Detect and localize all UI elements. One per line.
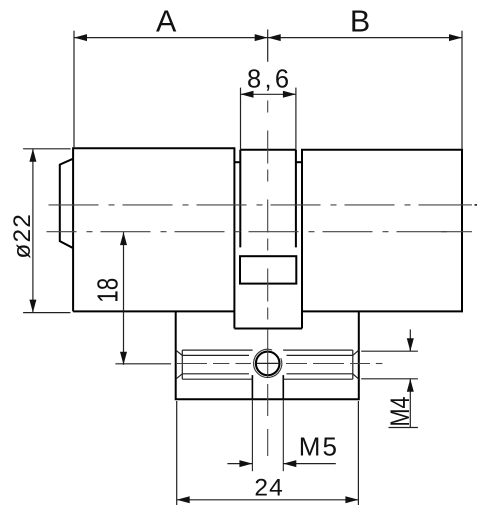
svg-text:A: A	[156, 4, 177, 38]
svg-text:24: 24	[254, 475, 284, 502]
svg-text:ø22: ø22	[9, 214, 36, 259]
svg-text:18: 18	[93, 278, 125, 303]
svg-text:8,6: 8,6	[247, 66, 289, 94]
svg-text:M4: M4	[385, 397, 415, 427]
svg-text:B: B	[350, 4, 370, 38]
svg-text:M5: M5	[299, 431, 339, 461]
